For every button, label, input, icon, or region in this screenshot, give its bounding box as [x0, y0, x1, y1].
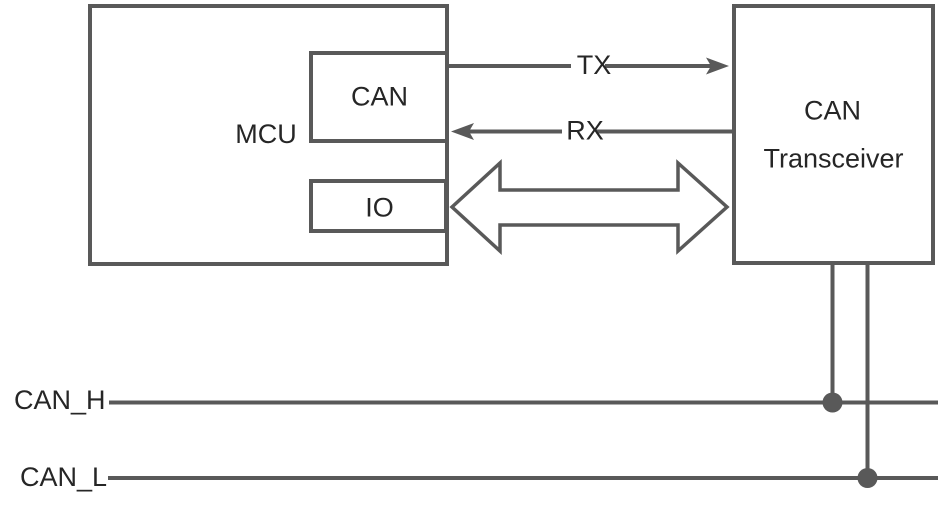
svg-text:TX: TX	[577, 50, 612, 80]
svg-text:CAN: CAN	[804, 96, 861, 126]
svg-text:CAN_H: CAN_H	[14, 385, 106, 415]
svg-text:MCU: MCU	[235, 119, 297, 149]
svg-text:CAN_L: CAN_L	[20, 462, 107, 492]
svg-text:CAN: CAN	[351, 82, 408, 112]
svg-text:Transceiver: Transceiver	[763, 144, 903, 174]
svg-text:RX: RX	[566, 116, 604, 146]
svg-text:IO: IO	[365, 193, 394, 223]
